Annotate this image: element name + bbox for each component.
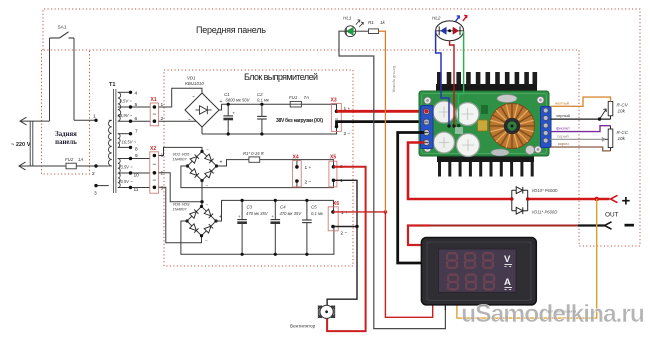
wire top DC bus 38V: [222, 103, 291, 105]
LED HL1: [343, 16, 363, 37]
digits row A: [447, 274, 495, 291]
wire 220V cord pair: [29, 121, 31, 166]
LED HL2 bicolor: [432, 15, 467, 40]
svg-text:1k: 1k: [380, 20, 386, 25]
svg-text:uSamodelkina.ru: uSamodelkina.ru: [461, 300, 645, 328]
svg-text:−: −: [205, 238, 208, 243]
svg-text:C3: C3: [247, 205, 253, 210]
OUT- terminal arrow: [605, 222, 612, 229]
wire bridge2 minus to bottom cap bus: [181, 221, 334, 254]
svg-text:FU2: FU2: [65, 157, 74, 162]
svg-text:VD11* P600D: VD11* P600D: [532, 210, 558, 215]
svg-text:−: −: [206, 147, 209, 152]
capacitor C2 0.1uF: [257, 92, 270, 136]
small components on module: [478, 120, 488, 131]
wire OUT- from ammeter red lead: [408, 226, 430, 246]
svg-text:сайт самоделкина: сайт самоделкина: [546, 310, 576, 314]
transformer primary winding: [108, 120, 111, 166]
svg-text:+: +: [233, 111, 236, 116]
wire green HL2 to module: [459, 31, 464, 126]
svg-text:3: 3: [161, 185, 164, 191]
svg-text:6: 6: [135, 116, 138, 122]
svg-text:R-CC: R-CC: [617, 130, 629, 135]
svg-text:3,5V ~: 3,5V ~: [120, 99, 133, 104]
node pin2: [94, 164, 97, 167]
svg-text:10k: 10k: [618, 109, 626, 114]
wire bottom bus: [202, 127, 337, 135]
wire fuse to transformer pin2: [76, 165, 109, 167]
wire red X5.2+ down to fan bottom: [327, 167, 366, 331]
diode VD11* P600D: [512, 207, 528, 214]
svg-text:2: 2: [161, 171, 164, 177]
connector X3: [331, 103, 341, 131]
svg-text:C1: C1: [224, 92, 230, 97]
OUT+ terminal arrow: [611, 195, 618, 202]
wire SA1 right lead down to transformer pin1: [73, 38, 75, 120]
svg-text:X5: X5: [330, 155, 336, 161]
winding value labels: [118, 99, 137, 185]
electrolytic capacitors on module: [433, 101, 535, 157]
wire black X6.2- joins ground vertical: [333, 226, 357, 228]
wire bridge1 plus via R1* to X4.1/X5.2: [217, 160, 249, 166]
wire orange module to R-CV top: [551, 97, 611, 106]
svg-text:~: ~: [188, 117, 191, 122]
svg-text:1 +: 1 +: [305, 165, 312, 171]
svg-text:KBU1010: KBU1010: [185, 81, 204, 86]
bridge rectifier VD6-VD9 1N4007: [173, 202, 223, 244]
svg-text:VD1: VD1: [187, 76, 196, 81]
front panel dashed outline: [43, 9, 640, 246]
svg-text:2 −: 2 −: [344, 131, 351, 137]
wire bridge1 AC bottom to bridge2 AC top: [201, 181, 203, 207]
node pin5 / wire to X1.1: [118, 106, 150, 108]
connector X5: [329, 161, 337, 187]
svg-text:3: 3: [94, 191, 97, 197]
digits row V: [446, 252, 494, 269]
node mid junction: [200, 200, 203, 203]
resistor R1* 0-15R: [249, 157, 260, 162]
node pin10 / wire to X2.2: [118, 172, 150, 174]
svg-text:1 +: 1 +: [341, 210, 348, 216]
svg-text:Вентилятор: Вентилятор: [290, 324, 316, 329]
svg-text:0,1 мк: 0,1 мк: [311, 211, 324, 216]
node OUT+ junction: [594, 197, 599, 202]
wire black X5.1- down to fan top: [327, 180, 357, 305]
rectifier block dashed box: [164, 70, 353, 266]
node pin4: [118, 91, 131, 93]
svg-text:OUT: OUT: [605, 212, 619, 219]
svg-text:470 мк 35V: 470 мк 35V: [246, 211, 269, 216]
svg-text:1: 1: [93, 114, 96, 120]
fuse FU1 7A: [289, 95, 309, 107]
svg-text:1A: 1A: [78, 157, 83, 162]
node pin8: [118, 146, 131, 148]
wire HL1 cathode down to common minus: [339, 31, 445, 328]
voltammeter display module P1: [421, 238, 536, 305]
svg-text:желтый: желтый: [555, 100, 569, 105]
wire red junction down to voltmeter supply: [385, 212, 432, 317]
svg-text:2 −: 2 −: [305, 180, 312, 186]
wire gray module to R-CC wiper: [551, 138, 606, 142]
svg-text:X1: X1: [151, 97, 157, 103]
wire VD1 plus to top bus: [219, 104, 222, 110]
node pin1: [94, 119, 97, 122]
wire violet module to R-CC top: [551, 126, 611, 132]
wire X1.2 to VD1 AC left-bottom edge: [159, 120, 197, 122]
svg-text:4: 4: [135, 90, 138, 96]
svg-text:13,5V ~: 13,5V ~: [118, 165, 133, 170]
svg-text:A: A: [504, 277, 511, 288]
svg-text:470 мк 35V: 470 мк 35V: [280, 211, 303, 216]
wire VD1 minus to bottom bus: [201, 127, 203, 134]
svg-text:C4: C4: [280, 205, 286, 210]
wire bridge2 plus to cap bus: [216, 200, 334, 221]
wire 220V line top with plug arrow: [21, 120, 50, 122]
wire thick red X3.1 to module IN+: [337, 110, 426, 113]
svg-text:Задняя: Задняя: [55, 131, 77, 138]
node pin9 / wire to X2.1: [118, 158, 150, 160]
svg-text:HL2: HL2: [432, 16, 441, 21]
svg-text:VD10* P600D: VD10* P600D: [532, 188, 558, 193]
svg-text:−: −: [206, 202, 209, 207]
bridge rectifier VD2-VD5 1N4007: [173, 147, 223, 188]
capacitor C4 470uF 35V: [271, 199, 303, 256]
svg-text:~ 220 V: ~ 220 V: [11, 142, 31, 148]
wire brown module to R-CC bottom: [551, 147, 611, 151]
svg-text:корич: корич: [558, 141, 569, 146]
capacitor C1 6800uF 50V: [223, 92, 250, 136]
terminal block left: [421, 106, 434, 149]
svg-text:38,9V ~: 38,9V ~: [118, 113, 133, 118]
svg-text:7A: 7A: [304, 95, 309, 100]
wire bridge1 minus to X4.2/X5.1: [181, 166, 334, 188]
transformer secondary winding 3.5V/38.9V: [118, 92, 121, 121]
svg-text:+: +: [238, 214, 241, 219]
potentiometer R-CC 10k: [608, 126, 628, 151]
svg-text:~: ~: [192, 94, 195, 99]
svg-text:8: 8: [135, 146, 138, 152]
svg-text:R1: R1: [368, 20, 374, 25]
svg-text:Блок выпрямителей: Блок выпрямителей: [244, 72, 318, 82]
terminal block right: [541, 107, 552, 148]
svg-text:+: +: [220, 160, 223, 166]
wire SA1 left lead down to AC line: [49, 38, 51, 121]
capacitor C3 470uF 35V: [237, 199, 269, 256]
fuse FU2: [66, 163, 76, 169]
svg-text:HL1: HL1: [343, 16, 352, 21]
potentiometer R-CV 10k: [600, 97, 629, 119]
svg-text:10k: 10k: [618, 136, 626, 141]
bridge rectifier VD1 KBU1010: [185, 76, 223, 128]
connector X1: [150, 103, 158, 126]
wire X2.3 to bridge2 AC bottom: [159, 187, 202, 242]
resistor R1 1k: [369, 29, 379, 34]
capacitor C5 0.1uF: [302, 199, 324, 256]
wire red X6.1+ to junction: [333, 211, 385, 213]
node pin6 / wire to X1.2: [118, 120, 150, 122]
svg-text:+: +: [271, 214, 274, 219]
svg-text:R1* 0-15 R: R1* 0-15 R: [243, 151, 264, 156]
wire orange R1 down to X6.1 junction: [379, 31, 386, 212]
mounting holes: [424, 97, 544, 154]
connector X2: [150, 152, 159, 193]
svg-text:9: 9: [135, 153, 138, 159]
wire thin black voltmeter supply minus stub: [444, 305, 446, 310]
fan motor M1: [290, 305, 335, 328]
node pin7: [118, 133, 131, 135]
svg-text:черный: черный: [556, 113, 570, 118]
svg-text:X4: X4: [293, 155, 299, 161]
wire blue HL2 to module: [436, 31, 449, 126]
diode VD10* P600D: [512, 187, 528, 211]
transformer core: [113, 89, 115, 193]
heatsink top: [436, 84, 537, 92]
svg-text:серый: серый: [557, 133, 569, 138]
transformer secondary winding 2x13.5V: [118, 159, 120, 188]
dc-dc converter module U1 (photo style): [419, 72, 551, 177]
wire HL1 to R1: [356, 30, 369, 32]
svg-text:6800 мк 50V: 6800 мк 50V: [226, 98, 251, 103]
svg-text:фиолет: фиолет: [556, 126, 570, 131]
back panel dashed box: [42, 50, 90, 174]
svg-text:SA1: SA1: [57, 25, 66, 31]
svg-text:38V без нагрузки (ХХ): 38V без нагрузки (ХХ): [276, 117, 323, 124]
wire orange voltage sense from OUT+ to voltmeter: [457, 199, 597, 318]
svg-text:FU1: FU1: [289, 95, 298, 100]
wire end dot module IN+: [424, 109, 428, 113]
node pin11 / wire to X2.3: [118, 187, 150, 189]
svg-text:X6: X6: [333, 201, 339, 207]
wire X2.2 to mid junction: [159, 173, 202, 202]
svg-text:панель: панель: [55, 139, 77, 146]
svg-text:11: 11: [134, 187, 139, 193]
node pin3 / spare tap: [96, 185, 109, 187]
svg-text:V: V: [504, 254, 511, 265]
svg-text:2 −: 2 −: [341, 231, 348, 237]
wire thick black module OUT- down to ammeter: [398, 133, 425, 264]
svg-text:2: 2: [92, 171, 95, 177]
PCB: [419, 91, 549, 156]
connector X4: [293, 161, 302, 187]
wire dark red HL2 to module: [450, 41, 454, 126]
wire X2.1 to bridge VD2-VD5 AC top: [159, 147, 202, 155]
toroid inductor L1: [490, 104, 535, 149]
svg-text:5: 5: [135, 102, 138, 108]
svg-text:X2: X2: [150, 146, 156, 152]
svg-text:1N4007: 1N4007: [173, 156, 188, 161]
svg-text:X3: X3: [331, 98, 337, 104]
transformer secondary winding 16.5V: [118, 134, 120, 148]
svg-text:Передняя панель: Передняя панель: [196, 25, 266, 35]
svg-text:0,1 мк: 0,1 мк: [257, 98, 270, 103]
wire X1.1 to VD1 AC top: [159, 88, 202, 107]
svg-text:R-CV: R-CV: [617, 103, 629, 108]
wire thick black X3.2 to module IN-: [337, 122, 425, 127]
wire thick red module OUT+ to VD10/11 and OUT plus: [408, 143, 512, 200]
connector X6: [328, 207, 338, 231]
switch SA1: [50, 32, 75, 38]
small silver part top center: [497, 95, 517, 103]
wire 220V line bottom with plug arrow: [20, 165, 67, 167]
svg-text:C5: C5: [311, 205, 317, 210]
svg-text:7: 7: [135, 129, 138, 135]
svg-text:13,5V ~: 13,5V ~: [118, 179, 133, 184]
svg-text:16,5V ~: 16,5V ~: [122, 140, 137, 145]
svg-text:T1: T1: [109, 82, 116, 88]
svg-text:1N4007: 1N4007: [173, 206, 188, 211]
svg-text:Белый провод: Белый провод: [392, 66, 397, 93]
heatsink bottom: [437, 156, 534, 162]
svg-text:C2: C2: [257, 92, 263, 97]
wire black module to R-CV bottom and wiper: [551, 118, 611, 120]
svg-text:+: +: [622, 193, 631, 210]
svg-text:10: 10: [134, 173, 140, 179]
